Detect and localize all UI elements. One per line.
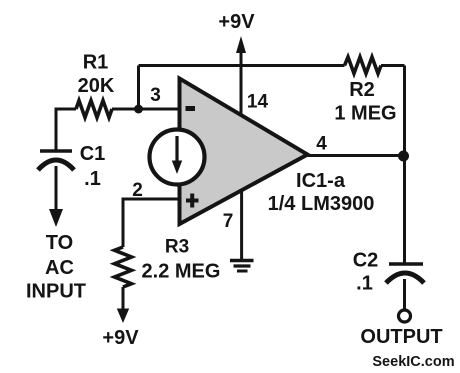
capacitor C1 [38,151,74,170]
wire: right vertical drop to C2 [403,66,406,264]
minus sign (inverting input) [186,106,196,111]
svg-text:TO: TO [46,232,73,254]
svg-text:7: 7 [223,211,234,232]
wire: op-amp output [307,154,404,157]
capacitor C2 [386,264,424,283]
resistor R1 [76,101,112,118]
svg-text:OUTPUT: OUTPUT [360,326,442,348]
svg-text:R2: R2 [349,79,375,101]
wire to output terminal [403,279,406,310]
svg-text:SeekIC.com: SeekIC.com [372,354,454,370]
wire: pin 2 to non-inverting input [123,199,180,247]
junction node at pin 3 [134,105,143,114]
resistor R3 [115,247,132,287]
resistor R2 [345,57,382,74]
svg-text:20K: 20K [78,75,115,97]
wire: input node corner to R1 [56,109,76,150]
wire with arrow to AC input [49,166,63,227]
svg-text:2.2 MEG: 2.2 MEG [142,261,221,283]
svg-text:C2: C2 [353,250,379,272]
wire: R1 to pin 3 [112,108,179,111]
supply +9V top with arrow [236,36,246,116]
svg-text:C1: C1 [80,143,106,165]
svg-text:1/4 LM3900: 1/4 LM3900 [268,193,375,215]
svg-text:R1: R1 [83,52,109,74]
svg-text:+9V: +9V [102,327,139,349]
wire: R2 to right drop [381,64,405,67]
svg-text:+9V: +9V [218,11,255,33]
svg-text:3: 3 [150,85,161,106]
wire with arrow to +9V bottom [117,287,129,323]
svg-text:1 MEG: 1 MEG [334,103,396,125]
output terminal circle [399,310,411,322]
svg-text:2: 2 [132,180,143,201]
svg-text:R3: R3 [165,237,189,258]
ground symbol [230,261,254,272]
op-amp U1 (IC1-a, 1/4 LM3900) triangle body [180,79,308,225]
junction node at output [398,151,409,162]
wire: pin 7 to ground [240,191,243,260]
svg-text:4: 4 [316,134,327,155]
svg-text:INPUT: INPUT [26,281,86,303]
svg-text:AC: AC [45,257,74,279]
wire: feedback top run to R2 [139,64,345,67]
wire: feedback riser from pin 3 node [137,66,140,110]
svg-text:IC1-a: IC1-a [296,170,346,192]
svg-text:.1: .1 [356,273,373,295]
svg-text:14: 14 [247,92,269,113]
plus sign (non-inverting input) [186,194,199,208]
svg-text:.1: .1 [84,168,101,190]
current source symbol inside op-amp [150,130,205,185]
